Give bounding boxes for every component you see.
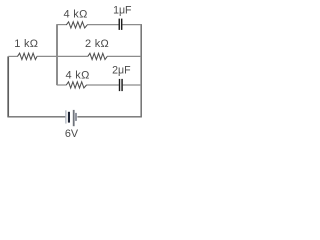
- wire: bottom horizontal right segment (battery to right bus): [77, 116, 141, 118]
- wire: third branch segments: [57, 84, 141, 86]
- resistor R3 2kΩ zigzag: [88, 53, 107, 59]
- svg-text:1 kΩ: 1 kΩ: [14, 38, 38, 50]
- resistor R4 4kΩ (third branch) zigzag: [66, 82, 86, 88]
- svg-text:2μF: 2μF: [112, 64, 131, 76]
- wire: left bus vertical: [56, 25, 58, 86]
- svg-text:1μF: 1μF: [113, 4, 132, 16]
- wire: left vertical edge: [7, 56, 9, 116]
- svg-text:6V: 6V: [65, 128, 79, 140]
- capacitor C1 1µF plates: [119, 19, 123, 30]
- wire: middle branch (1kΩ row / 2kΩ row): [8, 55, 141, 57]
- wire: bottom horizontal left segment (to battery): [7, 116, 65, 118]
- wire: right bus vertical: [140, 24, 142, 117]
- svg-text:2 kΩ: 2 kΩ: [85, 38, 109, 50]
- battery V1 plates: [65, 110, 76, 126]
- svg-text:4 kΩ: 4 kΩ: [64, 8, 88, 20]
- resistor R1 1kΩ zigzag: [18, 53, 38, 59]
- wire: top branch segments: [56, 24, 141, 26]
- capacitor C2 2µF plates: [119, 79, 123, 91]
- svg-text:4 kΩ: 4 kΩ: [66, 70, 90, 82]
- resistor R2 4kΩ (top branch) zigzag: [66, 22, 87, 28]
